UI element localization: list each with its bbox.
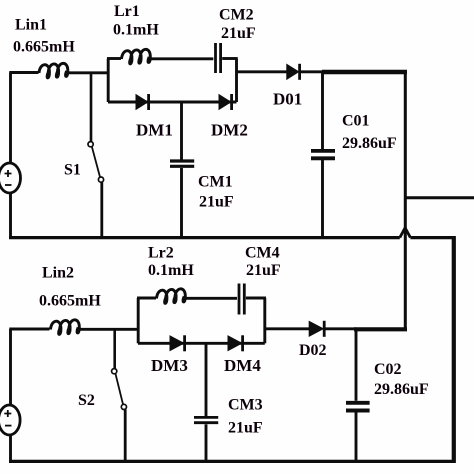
resonant inductor Lr1 0.1mH <box>122 49 151 64</box>
wire left vertical (V2 top) <box>9 329 12 405</box>
svg-text:CM2: CM2 <box>219 7 254 24</box>
voltage source V2 <box>0 405 20 435</box>
capacitor C01 29.86uF <box>311 151 335 158</box>
wire D02 to C02 node <box>324 327 356 330</box>
wire S2 upper lead <box>113 329 116 369</box>
svg-text:CM1: CM1 <box>198 174 233 191</box>
wire return rail right of hop <box>410 236 455 239</box>
wire S2 lower lead <box>124 410 127 463</box>
svg-text:21uF: 21uF <box>199 194 234 211</box>
voltage source V1 <box>0 163 21 193</box>
svg-text:0.665mH: 0.665mH <box>13 39 75 56</box>
wire S1 upper lead <box>90 73 93 142</box>
wire loop1 top edge right <box>222 57 238 60</box>
wire loop1 top edge middle <box>149 57 214 60</box>
diode DM2 <box>219 94 232 110</box>
inductor Lin2 0.665mH <box>51 320 80 335</box>
switch S1 <box>88 142 104 183</box>
wire Lin1 to loop1 <box>66 71 109 74</box>
wire CM3 lower lead <box>205 424 208 462</box>
switch S2 <box>112 369 127 410</box>
wire CM1 upper lead <box>180 101 183 160</box>
svg-text:21uF: 21uF <box>228 420 263 437</box>
wire D01 to C01 node <box>300 70 323 73</box>
svg-text:C01: C01 <box>342 113 370 130</box>
wire bottom rail left segment <box>9 328 49 331</box>
diode D02 <box>309 321 324 337</box>
wire Lin2 to loop2 <box>78 328 139 331</box>
svg-text:DM2: DM2 <box>211 121 248 140</box>
wire CM1 lower lead <box>180 168 183 239</box>
capacitor CM4 21uF <box>239 284 244 315</box>
svg-text:S2: S2 <box>78 392 95 409</box>
svg-text:0.1mH: 0.1mH <box>113 22 159 39</box>
svg-text:Lr1: Lr1 <box>114 3 140 20</box>
wire C01 lower lead <box>321 160 324 239</box>
diode DM3 <box>170 335 185 351</box>
svg-text:29.86uF: 29.86uF <box>374 381 429 398</box>
wire left vertical top (V1 to top rail) <box>9 73 12 164</box>
wire top rail left segment <box>9 71 38 74</box>
wire C01 upper lead <box>321 72 324 150</box>
svg-text:CM4: CM4 <box>245 245 280 262</box>
svg-text:Lin2: Lin2 <box>42 265 74 282</box>
resonant inductor Lr2 0.1mH <box>157 289 186 304</box>
svg-text:Lin1: Lin1 <box>15 17 47 34</box>
wire loop2 top edge right <box>246 297 266 300</box>
wire loop2 top edge left <box>137 297 156 300</box>
wire loop1 exit to D01 <box>237 70 288 73</box>
inductor Lin1 0.665mH <box>39 63 68 78</box>
wire hop over x405 bus <box>400 228 411 238</box>
wire left vertical bottom (V1 to return rail) <box>9 193 12 239</box>
wire return rail y237 <box>9 236 400 239</box>
capacitor CM1 21uF <box>170 161 194 166</box>
wire bottom output rail (heavy) <box>354 327 407 331</box>
wire CM3 upper lead <box>205 342 208 416</box>
node loop1 right edge <box>235 59 238 103</box>
svg-text:21uF: 21uF <box>246 262 281 279</box>
node loop1 left edge <box>107 59 110 103</box>
svg-text:S1: S1 <box>64 162 81 179</box>
wire loop2 exit to D02 <box>265 327 310 330</box>
svg-text:D01: D01 <box>273 90 302 109</box>
wire top output rail (heavy) <box>322 70 407 74</box>
wire bottom return rail <box>9 460 456 463</box>
capacitor CM2 21uF <box>216 43 221 73</box>
svg-text:DM3: DM3 <box>151 356 188 375</box>
wire loop2 top edge middle <box>184 297 237 300</box>
wire loop1 top edge left <box>107 57 121 60</box>
svg-text:CM3: CM3 <box>228 397 263 414</box>
wire output to load (top) <box>405 196 474 199</box>
wire loop1 bottom edge <box>108 101 237 104</box>
svg-text:C02: C02 <box>374 361 402 378</box>
svg-text:DM1: DM1 <box>136 121 173 140</box>
wire S1 lower lead <box>100 182 103 239</box>
wire right drop x453 <box>452 236 456 463</box>
svg-text:DM4: DM4 <box>224 356 261 375</box>
node loop2 left edge <box>137 298 140 343</box>
diode DM4 <box>228 335 243 351</box>
node loop2 right edge <box>263 298 266 343</box>
diode D01 <box>287 64 300 80</box>
svg-text:0.1mH: 0.1mH <box>148 262 194 279</box>
wire right vertical bus x405 <box>404 72 407 329</box>
capacitor CM3 21uF <box>194 417 218 422</box>
diode DM1 <box>136 94 149 110</box>
wire C02 lower lead <box>355 413 358 463</box>
svg-text:0.665mH: 0.665mH <box>39 293 101 310</box>
svg-text:Lr2: Lr2 <box>148 245 174 262</box>
wire C02 upper lead <box>355 329 358 401</box>
wire loop2 bottom edge <box>138 342 265 345</box>
capacitor C02 29.86uF <box>346 403 370 411</box>
svg-text:29.86uF: 29.86uF <box>342 135 397 152</box>
svg-text:21uF: 21uF <box>221 25 256 42</box>
wire left vertical (V2 bottom) <box>9 435 12 463</box>
svg-text:D02: D02 <box>299 342 327 359</box>
